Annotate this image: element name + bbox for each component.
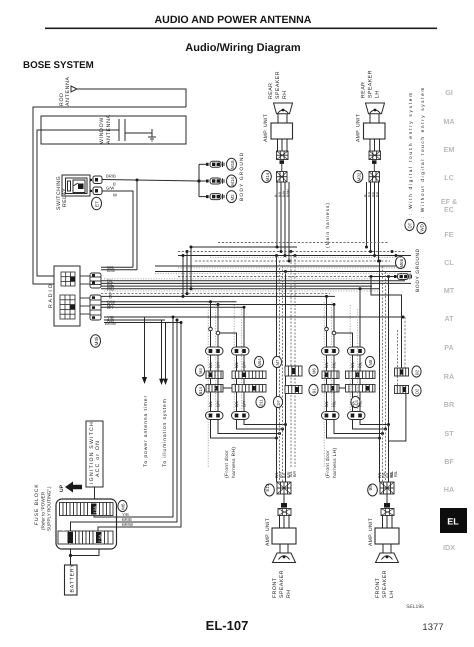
svg-text:ANTENNA: ANTENNA bbox=[106, 114, 112, 144]
wires rear speaker LH to amp bbox=[370, 114, 379, 123]
connector ref D7 bbox=[273, 396, 282, 407]
wire G/Y radio bbox=[101, 304, 334, 306]
svg-text:RADIO: RADIO bbox=[48, 283, 54, 308]
svg-text:FRONT: FRONT bbox=[375, 577, 381, 598]
svg-text:EL-107: EL-107 bbox=[206, 618, 249, 633]
svg-text:harness RH): harness RH) bbox=[231, 447, 237, 478]
wire BR/B relay to body ground bbox=[102, 174, 199, 187]
connector ref B1 bbox=[309, 384, 318, 395]
svg-text:: Without digital touch entry: : Without digital touch entry system bbox=[420, 86, 426, 218]
svg-text:(Front door: (Front door bbox=[224, 450, 230, 478]
wires X connector to amp front RH bbox=[280, 516, 290, 529]
side tab AT bbox=[444, 314, 454, 323]
svg-text:AMP. UNIT: AMP. UNIT bbox=[356, 114, 362, 142]
svg-text:SPEAKER: SPEAKER bbox=[382, 570, 388, 598]
side tab BR bbox=[444, 400, 455, 409]
wire right riser from ground dot bbox=[371, 277, 402, 369]
fuse block bbox=[34, 483, 117, 549]
tie wire LH lower blocks bbox=[339, 387, 346, 389]
svg-text:1377: 1377 bbox=[422, 622, 443, 633]
wire W/L radio bbox=[101, 266, 133, 268]
svg-text:E7: E7 bbox=[95, 201, 100, 207]
body ground cluster left vertical tie bbox=[197, 164, 200, 196]
svg-text:M32: M32 bbox=[357, 172, 362, 181]
svg-text:SEL195: SEL195 bbox=[406, 604, 424, 610]
arrow to power antenna timer bbox=[142, 317, 149, 467]
svg-text:(Main harness): (Main harness) bbox=[325, 202, 331, 248]
fuse wire labels bbox=[122, 512, 133, 527]
connector ref B5 front LH bbox=[368, 484, 378, 496]
svg-text:B/L: B/L bbox=[350, 400, 355, 407]
harness left corner risers bbox=[183, 247, 191, 296]
junction block LH right upper bbox=[346, 371, 376, 379]
wire B/R radio to right bbox=[101, 285, 372, 287]
rear speaker LH bbox=[361, 70, 385, 114]
svg-text:AMP. UNIT: AMP. UNIT bbox=[368, 518, 374, 546]
wire right edge shield companion bbox=[404, 317, 406, 368]
svg-text:R/L: R/L bbox=[332, 361, 337, 368]
svg-text:BF: BF bbox=[444, 457, 454, 466]
front door harness RH label bbox=[224, 447, 237, 478]
junction block RH left upper bbox=[206, 371, 223, 379]
junction block RH right upper bbox=[232, 371, 266, 379]
svg-text:REAR: REAR bbox=[268, 83, 274, 99]
svg-text:LH: LH bbox=[389, 590, 395, 598]
wire Y/B radio to fuse riser bbox=[104, 316, 403, 318]
side tab LC bbox=[444, 173, 454, 182]
oval connector RH top pair bbox=[206, 347, 250, 355]
svg-text:B14: B14 bbox=[198, 386, 203, 394]
svg-text:M6: M6 bbox=[312, 368, 317, 374]
svg-text:E15: E15 bbox=[265, 483, 270, 491]
svg-text:M2: M2 bbox=[230, 194, 235, 201]
svg-text:EC: EC bbox=[444, 205, 454, 214]
svg-text:To power antenna timer: To power antenna timer bbox=[143, 395, 149, 467]
main harness bus line 5 bbox=[155, 265, 405, 267]
side tab HA bbox=[444, 485, 454, 494]
wires rear RH bundle to bus bbox=[277, 182, 289, 261]
svg-text:B/Y: B/Y bbox=[242, 400, 247, 407]
svg-text:SPEAKER: SPEAKER bbox=[279, 570, 285, 598]
connector ref M6 LH bbox=[309, 365, 318, 376]
svg-text:M7: M7 bbox=[275, 359, 280, 365]
main harness bus line 6 bbox=[155, 271, 411, 273]
junction block LH right lower bbox=[346, 385, 376, 393]
fuse row lower bbox=[58, 526, 113, 544]
far right block LH lower bbox=[395, 386, 409, 394]
wire labels front LH bundle bbox=[377, 471, 394, 478]
side tab MT bbox=[444, 286, 455, 295]
wire B/Y radio bbox=[101, 306, 244, 308]
connector ref M14 rear RH bbox=[262, 171, 272, 183]
radio internal pin grid lower bbox=[60, 295, 75, 319]
wire B/L radio to right bbox=[101, 280, 405, 282]
junction block RH right lower bbox=[232, 385, 266, 393]
footer figure number SEL195 bbox=[406, 604, 424, 610]
junction block LH left lower bbox=[322, 385, 339, 393]
svg-text:PA: PA bbox=[444, 343, 453, 352]
wire B/W branch relay to radio bbox=[136, 180, 138, 270]
shield pin front RH bbox=[281, 494, 287, 508]
svg-text:M14: M14 bbox=[230, 177, 235, 186]
radio connector strip upper bbox=[80, 273, 101, 288]
connector ref D2 bbox=[412, 385, 421, 396]
bus top shield line bbox=[218, 242, 388, 244]
svg-text:B/Y: B/Y bbox=[216, 361, 221, 368]
oval connector RH bottom pair bbox=[206, 412, 250, 420]
svg-text:RH: RH bbox=[286, 590, 292, 599]
svg-text:ACC or ON: ACC or ON bbox=[95, 440, 101, 477]
svg-text:M4: M4 bbox=[198, 368, 203, 374]
svg-text:: With digital touch entry sys: : With digital touch entry system bbox=[408, 91, 414, 215]
wires rear speaker RH to amp bbox=[278, 114, 287, 123]
connector ref M7 bbox=[272, 356, 281, 367]
svg-text:BR/W: BR/W bbox=[122, 522, 133, 527]
junction block LH left upper bbox=[322, 371, 339, 379]
far right column RH dashed risers bbox=[291, 252, 295, 468]
svg-text:EM: EM bbox=[444, 145, 455, 154]
door cluster LH drop wires bbox=[325, 261, 389, 482]
tie wire RH lower blocks bbox=[223, 387, 232, 389]
svg-text:FUSE BLOCK: FUSE BLOCK bbox=[34, 483, 40, 525]
connector grid rear LH lower bbox=[369, 164, 380, 182]
svg-text:WD: WD bbox=[420, 224, 425, 231]
wire R/B radio to right bbox=[101, 288, 380, 290]
svg-text:REAR: REAR bbox=[361, 82, 367, 98]
main harness bus line 4 shield bbox=[195, 260, 390, 262]
main harness bus line 2 shield bbox=[178, 251, 405, 253]
svg-text:W: W bbox=[113, 193, 117, 198]
main harness bus line 3 bbox=[178, 255, 411, 257]
side tab FE bbox=[444, 230, 453, 239]
svg-text:LH: LH bbox=[375, 90, 381, 98]
wire B/W radio lower bbox=[101, 301, 237, 303]
side tab EF & EC bbox=[441, 197, 457, 214]
body ground branch M14 bbox=[199, 175, 237, 187]
wire tags LH lower bbox=[324, 400, 363, 407]
connector X front LH bbox=[381, 509, 394, 516]
connector ref E15 front RH bbox=[265, 483, 275, 496]
svg-text:M6: M6 bbox=[121, 503, 126, 510]
riser BR/W bus to fuse bbox=[117, 321, 183, 527]
wire far right LH down corner bbox=[389, 394, 406, 442]
svg-text:ANTENNA: ANTENNA bbox=[65, 76, 71, 106]
svg-text:RH: RH bbox=[282, 91, 288, 100]
front door harness LH label bbox=[325, 447, 338, 478]
svg-text:BR: BR bbox=[444, 400, 455, 409]
side tab EM bbox=[444, 145, 455, 154]
wires rear LH bundle to bus bbox=[367, 182, 379, 261]
svg-text:B/L: B/L bbox=[208, 400, 213, 407]
svg-text:10A: 10A bbox=[93, 506, 98, 514]
wire window antenna to radio feed bbox=[37, 130, 54, 276]
window antenna ANT2 bbox=[41, 114, 186, 144]
svg-text:R/L: R/L bbox=[358, 361, 363, 368]
connector ref M45 below radio bbox=[91, 335, 101, 347]
body ground label left bbox=[239, 152, 245, 201]
door bundle RH shield drops bbox=[280, 261, 283, 482]
connector ref M32 rear LH bbox=[353, 171, 363, 183]
wires amp to speaker front RH bbox=[280, 544, 288, 553]
svg-text:MA: MA bbox=[443, 117, 454, 126]
svg-text:M66: M66 bbox=[399, 258, 404, 267]
connector grid front LH bbox=[380, 482, 394, 494]
wire labels rear LH bundle bbox=[363, 190, 380, 197]
amp unit rear LH bbox=[356, 114, 386, 142]
svg-text:BOSE SYSTEM: BOSE SYSTEM bbox=[23, 60, 94, 71]
svg-text:B/W: B/W bbox=[286, 189, 291, 197]
wires amp rear LH to connector bbox=[370, 139, 380, 151]
connector grid rear RH upper bbox=[277, 151, 289, 160]
oval connector LH bottom pair bbox=[322, 412, 366, 420]
svg-text:WINDOW: WINDOW bbox=[99, 117, 105, 144]
side tab IDX bbox=[443, 543, 455, 552]
svg-text:RA: RA bbox=[444, 372, 454, 381]
radio wire labels column bbox=[105, 265, 116, 326]
svg-text:BATTERY: BATTERY bbox=[70, 563, 76, 592]
far right block RH upper bbox=[285, 366, 302, 376]
connector grid rear RH lower bbox=[277, 164, 288, 182]
connector ref E7 bbox=[92, 197, 102, 209]
svg-text:Audio/Wiring Diagram: Audio/Wiring Diagram bbox=[185, 42, 301, 54]
svg-text:To illumination system: To illumination system bbox=[162, 398, 168, 467]
wire B radio bbox=[101, 295, 335, 297]
svg-text:BR/B: BR/B bbox=[106, 174, 116, 179]
body ground branch M18 bbox=[199, 158, 237, 170]
svg-text:G/W: G/W bbox=[106, 186, 114, 191]
radio internal pin grid upper bbox=[61, 272, 75, 286]
connector ref B14 bbox=[195, 384, 204, 395]
battery bbox=[65, 563, 78, 595]
connector ref B2 bbox=[412, 366, 421, 377]
svg-text:BR/W: BR/W bbox=[105, 321, 116, 326]
far right block RH lower bbox=[285, 386, 302, 394]
svg-text:GI: GI bbox=[445, 88, 453, 97]
connector ref M64 bbox=[254, 356, 263, 367]
svg-text:FE: FE bbox=[444, 230, 453, 239]
amp unit front RH bbox=[265, 518, 296, 546]
bus dotted companions bbox=[104, 257, 411, 291]
svg-text:SPEAKER: SPEAKER bbox=[368, 70, 374, 98]
connector grid front RH bbox=[277, 482, 291, 494]
side tab PA bbox=[444, 343, 453, 352]
fuse row upper bbox=[60, 503, 114, 516]
wires X connector to amp front LH bbox=[383, 516, 393, 529]
svg-text:D2: D2 bbox=[415, 388, 420, 394]
svg-text:B2: B2 bbox=[415, 369, 420, 375]
svg-text:B/L: B/L bbox=[324, 361, 329, 368]
side tab GI bbox=[445, 88, 453, 97]
far right column LH riser companion bbox=[397, 330, 399, 386]
svg-text:B1: B1 bbox=[312, 388, 317, 394]
wire rod antenna to radio feed bbox=[33, 89, 186, 284]
shield companion dotted lines LH cluster bbox=[324, 302, 358, 468]
svg-text:HA: HA bbox=[444, 485, 454, 494]
wire ignition switch to fuse block bbox=[94, 487, 96, 499]
legend DT with digital touch entry system bbox=[405, 91, 414, 230]
junction block RH left lower bbox=[206, 385, 223, 393]
svg-text:IDX: IDX bbox=[443, 543, 455, 552]
rear speaker RH bbox=[268, 71, 293, 114]
svg-text:AMP. UNIT: AMP. UNIT bbox=[263, 114, 269, 142]
svg-text:M45: M45 bbox=[94, 336, 99, 345]
wire tags RH upper bbox=[208, 361, 247, 368]
svg-text:D7: D7 bbox=[276, 399, 281, 405]
bus junction dots bbox=[209, 246, 405, 440]
riser Y/B bus to fuse bbox=[117, 316, 175, 518]
harness left corner junction dots bbox=[182, 246, 193, 298]
wires amp rear RH to connector bbox=[278, 139, 288, 151]
wire tags LH upper bbox=[324, 361, 363, 368]
svg-text:LC: LC bbox=[444, 173, 454, 182]
svg-text:(Refer to “POWER: (Refer to “POWER bbox=[41, 491, 46, 530]
connector ref M4 bbox=[195, 365, 204, 376]
svg-text:UP: UP bbox=[59, 484, 65, 492]
main harness label bbox=[325, 202, 331, 248]
svg-text:FRONT: FRONT bbox=[272, 577, 278, 598]
svg-text:R/L: R/L bbox=[332, 400, 337, 407]
amp unit rear RH bbox=[263, 114, 293, 142]
door cluster RH drop wires bbox=[209, 256, 286, 483]
ground for window antenna bbox=[148, 129, 156, 141]
svg-text:B/L: B/L bbox=[234, 361, 239, 368]
switching relay bbox=[56, 175, 90, 210]
connector X front RH bbox=[278, 509, 291, 516]
svg-text:ST: ST bbox=[444, 429, 454, 438]
svg-text:EL: EL bbox=[447, 517, 459, 527]
svg-text:BODY GROUND: BODY GROUND bbox=[415, 248, 421, 292]
main harness bus line 7 shield bbox=[178, 276, 405, 278]
svg-text:M18: M18 bbox=[230, 160, 235, 169]
svg-text:AUDIO AND POWER ANTENNA: AUDIO AND POWER ANTENNA bbox=[155, 14, 312, 26]
svg-text:B/Y: B/Y bbox=[242, 361, 247, 368]
svg-text:AMP. UNIT: AMP. UNIT bbox=[265, 518, 271, 546]
footer page number 1377 bbox=[422, 622, 443, 633]
svg-text:AT: AT bbox=[444, 314, 454, 323]
oval connector LH top pair bbox=[322, 347, 366, 355]
svg-text:7.5A: 7.5A bbox=[98, 534, 103, 543]
amp unit front LH bbox=[368, 518, 399, 546]
radio connector strip lower bbox=[80, 295, 101, 320]
wire battery to fuse block bbox=[69, 549, 99, 565]
svg-text:B/Y: B/Y bbox=[216, 400, 221, 407]
svg-text:B/L: B/L bbox=[375, 190, 380, 197]
radio unit bbox=[48, 266, 80, 326]
door bundle LH shield drops bbox=[383, 266, 386, 482]
svg-text:SPEAKER: SPEAKER bbox=[275, 71, 281, 99]
wire tags far right LH bottom bbox=[389, 470, 398, 477]
connector ref D11 bbox=[256, 396, 265, 407]
section heading BOSE SYSTEM bbox=[23, 60, 94, 71]
wire R/L radio to right bbox=[101, 282, 411, 284]
wires amp to speaker front LH bbox=[383, 544, 391, 553]
header subtitle bbox=[185, 42, 301, 54]
connector ref E3 bbox=[351, 396, 360, 407]
svg-text:BODY GROUND: BODY GROUND bbox=[239, 152, 245, 201]
riser BR/B bus to fuse bbox=[117, 319, 179, 523]
svg-text:B5: B5 bbox=[368, 485, 373, 491]
svg-text:M8: M8 bbox=[368, 359, 373, 365]
svg-text:B/L: B/L bbox=[234, 400, 239, 407]
svg-text:B/W: B/W bbox=[107, 268, 115, 273]
shield companion dotted lines RH cluster bbox=[208, 302, 242, 468]
wire BR/W radio lower bbox=[104, 322, 181, 324]
shield pin rear LH bbox=[372, 160, 377, 164]
svg-text:B/L: B/L bbox=[350, 361, 355, 368]
arrow to illumination system wire 2 bbox=[162, 323, 168, 468]
fuse block internal wires bbox=[71, 516, 117, 532]
svg-text:M14: M14 bbox=[265, 172, 270, 181]
wire G/W relay to radio bbox=[102, 186, 133, 268]
front speaker RH bbox=[272, 553, 296, 598]
svg-text:SUPPLY ROUTING”.): SUPPLY ROUTING”.) bbox=[47, 486, 52, 531]
wire labels rear RH bundle bbox=[274, 189, 291, 197]
svg-text:B/L: B/L bbox=[324, 400, 329, 407]
connector ref M8 bbox=[365, 356, 374, 367]
svg-text:7.5A: 7.5A bbox=[61, 526, 66, 535]
connector pins of switching relay bbox=[90, 176, 102, 195]
rod antenna ANT1 bbox=[59, 76, 77, 106]
front speaker LH bbox=[375, 553, 399, 598]
wire R/B radio lower bbox=[104, 319, 165, 321]
wire B shield radio bbox=[101, 293, 330, 295]
svg-text:R/L: R/L bbox=[358, 400, 363, 407]
svg-text:R/L: R/L bbox=[393, 470, 398, 477]
svg-text:B/Y: B/Y bbox=[292, 470, 297, 477]
svg-text:M64: M64 bbox=[257, 358, 262, 367]
svg-text:harness LH): harness LH) bbox=[332, 447, 338, 478]
body ground right M66 bbox=[371, 248, 421, 292]
svg-text:MT: MT bbox=[444, 286, 455, 295]
far right block LH upper bbox=[395, 368, 409, 376]
shield pin rear RH bbox=[280, 160, 285, 164]
legend WD without digital touch entry system bbox=[417, 86, 426, 234]
wire labels front RH bundle bbox=[274, 471, 291, 478]
side tab MA bbox=[443, 117, 454, 126]
UP direction arrow bbox=[59, 482, 82, 493]
side tab RA bbox=[444, 372, 454, 381]
shield pin front LH bbox=[384, 494, 390, 508]
svg-text:(Front door: (Front door bbox=[325, 450, 331, 478]
wire tags far right RH bottom bbox=[288, 470, 297, 477]
svg-text:B/L: B/L bbox=[208, 361, 213, 368]
side tab CL bbox=[444, 258, 454, 267]
header title bbox=[45, 14, 437, 29]
svg-text:CL: CL bbox=[444, 258, 454, 267]
side tab EL active bbox=[440, 508, 467, 533]
ignition switch bbox=[86, 421, 103, 487]
footer page code EL-107 bbox=[206, 618, 249, 633]
body ground branch M2 bbox=[199, 191, 237, 203]
side tab BF bbox=[444, 457, 454, 466]
wire tags RH lower bbox=[208, 400, 247, 407]
svg-text:D11: D11 bbox=[259, 398, 264, 406]
connector grid rear LH upper bbox=[369, 151, 381, 160]
side tab ST bbox=[444, 429, 454, 438]
main harness bus line 1 bbox=[191, 246, 297, 248]
wire B/W radio bbox=[101, 269, 137, 271]
connector ref M6 fuse block bbox=[118, 500, 127, 511]
arrow to illumination system wire 1 bbox=[159, 320, 164, 385]
svg-text:DT: DT bbox=[408, 222, 413, 228]
